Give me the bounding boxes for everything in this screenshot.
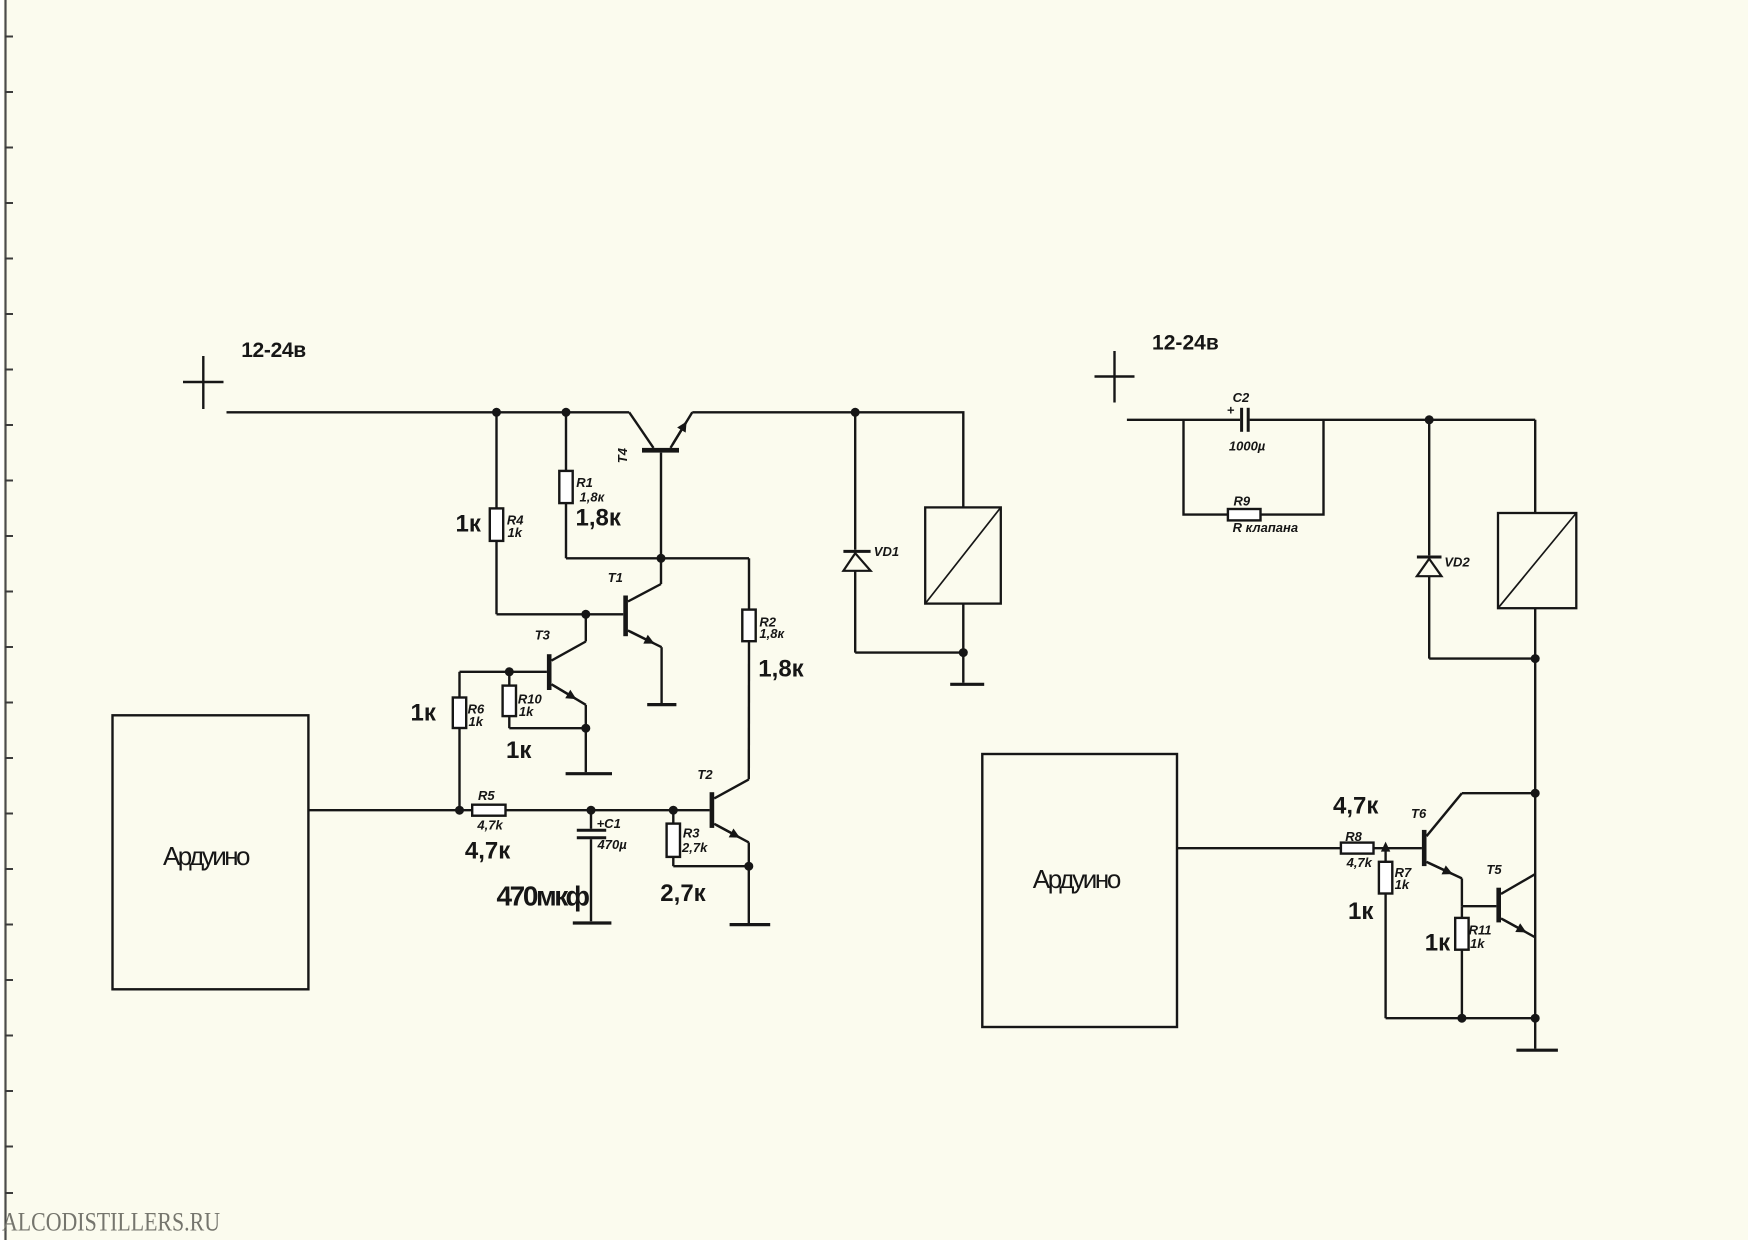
svg-text:1,8к: 1,8к xyxy=(759,626,785,641)
wire: Arduino output to R8 xyxy=(1177,847,1341,849)
svg-text:4,7k: 4,7k xyxy=(476,818,503,833)
diode VD2 xyxy=(1428,420,1430,556)
resistor R1 xyxy=(565,412,567,471)
svg-text:1к: 1к xyxy=(506,737,532,764)
resistor R10 xyxy=(508,672,510,686)
junction dot relay K2 bottom xyxy=(1531,654,1540,663)
wire: main collector line xyxy=(1534,659,1536,1019)
svg-text:1к: 1к xyxy=(411,699,437,726)
svg-text:1k: 1k xyxy=(1470,936,1485,951)
wire: +V rail right circuit xyxy=(1127,419,1240,421)
resistor R9 xyxy=(1184,420,1228,515)
svg-text:2,7к: 2,7к xyxy=(660,880,706,907)
svg-text:1k: 1k xyxy=(519,704,534,719)
resistor R6 xyxy=(458,672,460,698)
transistor T1 xyxy=(623,596,628,637)
svg-text:2,7k: 2,7k xyxy=(681,840,708,855)
relay K1 coil xyxy=(925,507,1001,603)
diode VD1 xyxy=(854,412,856,550)
svg-text:1к: 1к xyxy=(1425,930,1451,957)
svg-text:R8: R8 xyxy=(1345,829,1362,844)
junction dot rail/VD1 xyxy=(851,408,860,417)
Arduino block (right) xyxy=(982,754,1177,1027)
ground C1 xyxy=(573,921,612,924)
svg-text:1,8к: 1,8к xyxy=(580,489,606,504)
wire: T3 base xyxy=(460,671,547,673)
ground T2 emitter xyxy=(748,866,750,923)
resistor R7 xyxy=(1384,851,1386,862)
svg-text:Ардуино: Ардуино xyxy=(163,841,251,871)
svg-text:R9: R9 xyxy=(1234,493,1251,508)
junction dot R5/R6 node xyxy=(455,806,464,815)
svg-text:R3: R3 xyxy=(683,825,700,840)
transistor T6 xyxy=(1422,830,1427,866)
junction dot rail/VD2 xyxy=(1425,415,1434,424)
svg-text:ALCODISTILLERS.RU: ALCODISTILLERS.RU xyxy=(2,1208,220,1237)
wire: Arduino output to R5 xyxy=(308,809,472,811)
junction dot T3 base / R10 xyxy=(505,667,514,676)
svg-text:R1: R1 xyxy=(576,475,593,490)
svg-text:C2: C2 xyxy=(1233,390,1250,405)
junction dot R3 top xyxy=(669,806,678,815)
svg-text:T6: T6 xyxy=(1411,806,1427,821)
capacitor C2 xyxy=(1240,408,1243,432)
wire: R3 bottom to T2 emitter xyxy=(673,865,749,867)
resistor R5 xyxy=(472,805,505,816)
svg-text:1,8к: 1,8к xyxy=(576,505,622,532)
junction dot T1 base / T3 collector xyxy=(581,610,590,619)
svg-text:T2: T2 xyxy=(697,767,713,782)
junction dot T3 emitter node xyxy=(581,724,590,733)
svg-text:1k: 1k xyxy=(508,525,523,540)
junction dot relay K1 bottom xyxy=(959,648,968,657)
svg-text:1000µ: 1000µ xyxy=(1229,438,1266,453)
svg-text:470µ: 470µ xyxy=(597,837,628,852)
svg-text:1k: 1k xyxy=(469,714,484,729)
wire: R10 bottom to T3 emitter xyxy=(509,727,586,729)
svg-text:VD2: VD2 xyxy=(1444,555,1470,570)
svg-text:4,7к: 4,7к xyxy=(465,837,511,864)
svg-text:4,7k: 4,7k xyxy=(1346,855,1373,870)
transistor T5 xyxy=(1496,888,1501,923)
transistor T4 xyxy=(642,448,679,453)
junction dot rail/R4 xyxy=(492,408,501,417)
junction dot T2 emitter node xyxy=(744,862,753,871)
svg-text:1,8к: 1,8к xyxy=(758,655,804,682)
svg-text:12-24в: 12-24в xyxy=(241,339,306,362)
svg-text:T4: T4 xyxy=(615,447,630,463)
svg-text:+C1: +C1 xyxy=(597,816,621,831)
resistor R11 xyxy=(1461,906,1463,918)
wire: VD1 to relay K1 bottom xyxy=(855,651,963,653)
wire: bottom emitter rail xyxy=(1386,1017,1536,1019)
resistor R8 xyxy=(1341,843,1374,854)
junction dot output node xyxy=(657,554,666,563)
ground T3 emitter xyxy=(585,728,587,772)
ground relay K1 xyxy=(962,653,964,683)
junction dot R11 bottom xyxy=(1457,1014,1466,1023)
junction arrow R7 node xyxy=(1381,842,1390,852)
capacitor C1 xyxy=(590,810,592,829)
Arduino block (left) xyxy=(113,715,309,989)
power cross marker (left rail) xyxy=(183,356,224,409)
wire: VD2 to relay K2 bottom xyxy=(1429,657,1535,659)
wire: +V rail left section xyxy=(227,411,630,413)
wire: output node T4/R1/R2 xyxy=(566,557,749,559)
transistor T2 xyxy=(710,792,715,828)
svg-text:T1: T1 xyxy=(608,570,623,585)
svg-text:Ардуино: Ардуино xyxy=(1033,864,1122,894)
junction dot rail/R1 xyxy=(562,408,571,417)
wire: +V rail right of T4 xyxy=(692,412,963,507)
relay K2 coil xyxy=(1534,420,1536,513)
svg-text:12-24в: 12-24в xyxy=(1152,332,1219,355)
junction dot C1 tap xyxy=(587,806,596,815)
svg-text:R5: R5 xyxy=(478,788,495,803)
resistor R2 xyxy=(748,558,750,609)
svg-text:T5: T5 xyxy=(1486,862,1502,877)
svg-text:1k: 1k xyxy=(1395,877,1410,892)
svg-text:+: + xyxy=(1227,403,1235,418)
junction dot main line bottom xyxy=(1531,1014,1540,1023)
junction dot T6 collector xyxy=(1531,789,1540,798)
svg-text:1к: 1к xyxy=(1348,898,1374,925)
svg-text:T3: T3 xyxy=(535,628,551,643)
svg-text:R клапана: R клапана xyxy=(1233,520,1298,535)
wire: T1 base xyxy=(497,613,624,615)
wire: T6 emitter to T5 base xyxy=(1461,878,1463,906)
ground (right circuit) xyxy=(1534,1018,1536,1048)
svg-text:1к: 1к xyxy=(456,511,482,538)
power cross marker (right rail) xyxy=(1095,351,1135,403)
svg-text:4,7к: 4,7к xyxy=(1333,792,1379,819)
svg-text:VD1: VD1 xyxy=(874,544,899,559)
transistor T3 xyxy=(547,654,552,690)
resistor R4 xyxy=(495,412,497,508)
svg-text:470мкф: 470мкф xyxy=(497,881,591,912)
ground T1 emitter xyxy=(647,703,676,706)
resistor R3 xyxy=(672,810,674,823)
